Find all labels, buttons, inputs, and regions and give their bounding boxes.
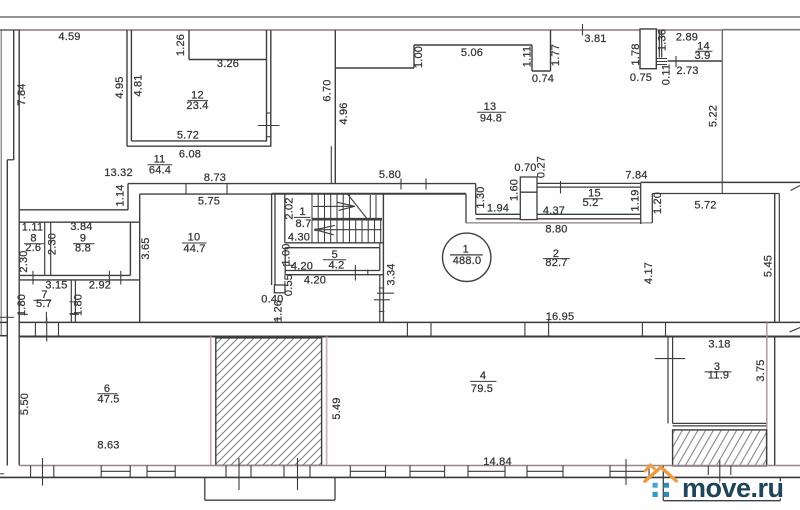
room12 right wall inner <box>266 30 268 141</box>
window midline <box>610 470 644 472</box>
door dash left <box>20 313 29 315</box>
room5 right wall <box>379 248 381 271</box>
svg-text:1.30: 1.30 <box>475 186 487 208</box>
left outer wall upper outer line <box>13 30 15 160</box>
logo window square TL <box>653 483 658 488</box>
tick on room15 top <box>560 181 562 194</box>
svg-text:1.26: 1.26 <box>175 34 187 56</box>
svg-text:2.02: 2.02 <box>284 197 296 219</box>
wall 8|9 line b <box>50 222 52 275</box>
svg-text:4.30: 4.30 <box>288 232 310 244</box>
band divider <box>225 466 227 478</box>
room9 right wall <box>129 222 131 275</box>
svg-text:4.20: 4.20 <box>304 275 326 287</box>
room15 floor line a left <box>476 213 521 215</box>
window right jamb <box>504 466 506 478</box>
window left jamb <box>467 466 469 478</box>
svg-text:5.80: 5.80 <box>379 169 401 181</box>
svg-text:4.95: 4.95 <box>114 76 126 98</box>
svg-text:8.7: 8.7 <box>296 218 312 230</box>
band divider <box>283 466 285 478</box>
band divider <box>524 322 526 336</box>
stairwell east wall <box>382 194 384 323</box>
window right jamb <box>444 466 446 478</box>
svg-text:11.9: 11.9 <box>708 370 729 382</box>
wall 7.84 <box>641 181 800 183</box>
svg-text:5.45: 5.45 <box>763 255 775 277</box>
svg-text:4.20: 4.20 <box>291 260 313 272</box>
svg-text:4: 4 <box>480 370 486 382</box>
room12 niche horizontal <box>189 59 267 61</box>
room12 wall rung <box>266 112 271 114</box>
svg-text:10: 10 <box>188 232 201 244</box>
center porch left <box>204 477 206 500</box>
svg-text:1.11: 1.11 <box>22 222 43 234</box>
right outer wall lower <box>774 337 776 466</box>
svg-text:0.55: 0.55 <box>283 274 295 296</box>
window right jamb <box>129 466 131 478</box>
svg-text:5.72: 5.72 <box>177 130 199 142</box>
right porch bottom <box>663 500 780 502</box>
room 13 label <box>477 101 506 125</box>
svg-text:1.11: 1.11 <box>522 46 534 67</box>
room7 wall rung <box>70 313 78 315</box>
rooms 8-9 top wall <box>19 221 140 223</box>
window left jamb <box>349 466 351 478</box>
stairs bottom line <box>285 242 384 244</box>
wall 1.20 vertical <box>651 194 653 224</box>
wall 8.73 <box>128 183 476 185</box>
svg-text:6.70: 6.70 <box>322 79 334 101</box>
right wall line b <box>778 194 780 323</box>
tick on bottom wall <box>32 271 34 285</box>
svg-text:14.84: 14.84 <box>483 456 512 468</box>
door opening rect <box>640 29 656 69</box>
svg-text:3.9: 3.9 <box>695 50 711 62</box>
lower flight treads <box>312 219 381 243</box>
tick on bottom wall <box>108 271 110 285</box>
svg-text:3.26: 3.26 <box>217 58 239 70</box>
room5 top <box>285 247 380 249</box>
room5 bottom outer <box>285 274 383 276</box>
svg-text:1.60: 1.60 <box>509 179 521 201</box>
svg-text:5.2: 5.2 <box>583 197 599 209</box>
room13 left wall second line <box>330 146 332 183</box>
stairwell top wall <box>272 193 466 195</box>
room13 left wall <box>334 30 336 184</box>
band long tick <box>42 458 44 486</box>
door stub room7 <box>45 312 47 323</box>
svg-text:move.ru: move.ru <box>682 473 784 503</box>
tick on 8.73 wall <box>400 179 402 190</box>
svg-text:5.49: 5.49 <box>331 397 343 419</box>
svg-text:1.78: 1.78 <box>630 43 642 65</box>
svg-text:1.14: 1.14 <box>115 184 127 206</box>
east wall tick 2 <box>374 299 390 301</box>
svg-text:2.30: 2.30 <box>18 250 30 272</box>
tick on 8.73 wall <box>425 179 427 190</box>
svg-text:0.74: 0.74 <box>532 73 554 85</box>
svg-text:1.00: 1.00 <box>413 46 425 68</box>
svg-text:1.26: 1.26 <box>273 300 285 322</box>
band divider <box>406 322 408 336</box>
tick between walls <box>185 184 187 194</box>
logo window square BR <box>664 492 669 497</box>
svg-text:3.81: 3.81 <box>584 33 606 45</box>
niche 5.06 top <box>414 44 532 46</box>
room12 wall tick <box>258 125 280 127</box>
stairwell west wall line b <box>274 194 276 285</box>
door dash right <box>70 313 79 315</box>
window left jamb <box>526 466 528 478</box>
lower flight arrow shaft <box>315 229 381 231</box>
band long tick <box>625 459 627 485</box>
svg-text:0.70: 0.70 <box>514 162 536 174</box>
band divider <box>309 466 311 478</box>
right wall 5.22 <box>721 30 723 194</box>
tick on room5 bottom <box>354 265 356 281</box>
logo window square TR <box>664 483 669 488</box>
svg-text:3.18: 3.18 <box>708 339 730 351</box>
band divider <box>665 322 667 336</box>
room15 top wall line a <box>537 182 641 184</box>
svg-text:94.8: 94.8 <box>480 113 502 125</box>
bottom band bottom line <box>0 476 800 478</box>
room 3 label <box>705 361 732 382</box>
wall 8.80 bottom gray <box>466 222 652 224</box>
window midline <box>527 470 563 472</box>
stair east wall second line upper <box>379 243 381 248</box>
upper flight treads <box>312 194 376 219</box>
svg-text:23.4: 23.4 <box>186 100 208 112</box>
room 4 label <box>470 370 497 395</box>
niche 5.06 left vertical <box>413 45 415 68</box>
stairwell label 1 8.7 <box>294 206 311 230</box>
wall down 1.60 side <box>475 184 477 215</box>
hatch block 1 pink line right <box>326 337 328 466</box>
svg-text:7.84: 7.84 <box>16 83 28 105</box>
wall 4|3 line a <box>667 337 669 424</box>
room12 right wall outer <box>270 30 272 146</box>
corridor10 left wall 3.65 <box>139 194 141 322</box>
left bottom small tick <box>0 473 4 475</box>
svg-text:488.0: 488.0 <box>453 255 482 267</box>
svg-text:3.84: 3.84 <box>70 221 92 233</box>
svg-text:79.5: 79.5 <box>471 383 493 395</box>
svg-text:1.19: 1.19 <box>630 189 642 211</box>
wall 1.77 <box>550 30 552 71</box>
cross tick on wall 4|3 <box>655 358 685 360</box>
svg-text:5.72: 5.72 <box>694 200 716 212</box>
band door dash right <box>790 328 800 333</box>
room5 left wall <box>284 248 286 275</box>
hatch block 1 <box>216 338 322 466</box>
svg-text:4.17: 4.17 <box>643 262 655 284</box>
tick on bottom wall <box>120 271 122 285</box>
band divider <box>53 466 55 478</box>
room12 bottom inner <box>131 140 267 142</box>
hatch block 2 <box>673 430 767 466</box>
band divider <box>707 466 709 476</box>
room15 floor line b <box>476 218 641 220</box>
room15 floor line a right <box>537 213 641 215</box>
wall 1.36 line a <box>658 30 660 58</box>
niche 0.70 rect <box>520 177 537 220</box>
band divider <box>250 466 252 478</box>
band stub left top <box>0 321 7 323</box>
svg-text:47.5: 47.5 <box>97 394 119 406</box>
dim leader tick 4.20 <box>283 264 294 266</box>
lower flight arrow head <box>315 225 335 234</box>
band long tick <box>719 460 721 485</box>
svg-text:1.77: 1.77 <box>550 44 562 66</box>
logo house roof main <box>645 467 677 481</box>
svg-text:5.7: 5.7 <box>36 298 52 310</box>
center porch right <box>334 477 336 500</box>
svg-text:1.36: 1.36 <box>657 29 669 51</box>
hatch block 1 pink line left <box>210 337 212 466</box>
svg-text:5.50: 5.50 <box>19 393 31 415</box>
tick on 2.73 wall <box>675 56 677 67</box>
stairwell west wall line a <box>271 194 273 285</box>
landing left wall <box>284 194 286 243</box>
room 10 label <box>182 232 207 256</box>
svg-text:1.94: 1.94 <box>487 203 509 215</box>
svg-text:13: 13 <box>484 101 497 113</box>
svg-text:3.75: 3.75 <box>755 359 767 381</box>
band bottom line <box>19 336 800 338</box>
svg-text:4.37: 4.37 <box>543 205 565 217</box>
room12 left wall outer <box>126 30 128 146</box>
tick on top wall <box>582 24 584 36</box>
svg-text:16.95: 16.95 <box>546 311 575 323</box>
tick on room5 bottom short <box>367 270 369 276</box>
door tick near band <box>276 317 278 322</box>
window right jamb <box>385 466 387 478</box>
svg-text:8.80: 8.80 <box>545 224 567 236</box>
band long tick <box>238 458 240 490</box>
wall down 1.30 <box>465 194 467 223</box>
room7 wall rung <box>70 301 78 303</box>
band divider <box>430 322 432 336</box>
stairs middle thick line <box>312 218 382 221</box>
room12 left wall inner <box>130 30 132 141</box>
svg-text:3.15: 3.15 <box>45 280 67 292</box>
svg-text:4.2: 4.2 <box>329 260 345 272</box>
hinge dash 3 <box>657 64 668 66</box>
svg-text:82.7: 82.7 <box>545 257 567 269</box>
left edge line <box>0 30 2 335</box>
niche bottom horizontal <box>532 70 551 72</box>
window left jamb <box>100 466 102 478</box>
svg-text:2.30: 2.30 <box>47 233 59 255</box>
svg-text:6.08: 6.08 <box>179 149 201 161</box>
hinge dash 2 <box>657 61 668 63</box>
band divider <box>730 466 732 476</box>
bottom band top line <box>19 465 800 467</box>
room13 wall 3.19 <box>335 67 414 69</box>
logo house roof small peak <box>645 465 654 471</box>
east wall rung <box>379 310 385 312</box>
svg-text:5.22: 5.22 <box>708 105 720 127</box>
wall 2.73 <box>668 60 723 62</box>
east wall second line below <box>379 275 381 323</box>
left wall jog <box>7 159 13 161</box>
room 11 label <box>148 154 173 177</box>
band top line <box>19 321 800 323</box>
room5 bottom inner <box>285 270 380 272</box>
step vertical 1.14 <box>127 184 129 210</box>
room 12 label <box>186 90 208 113</box>
svg-text:2.89: 2.89 <box>676 32 698 44</box>
upper flight arrow head <box>337 202 355 210</box>
svg-text:3.34: 3.34 <box>386 263 398 285</box>
window midline <box>101 470 130 472</box>
band long tick <box>297 458 299 490</box>
wall 5.75 corridor top <box>140 193 466 195</box>
top exterior wall left (black) <box>0 29 20 31</box>
top border line <box>0 16 800 18</box>
svg-text:0.75: 0.75 <box>630 72 652 84</box>
svg-text:0.27: 0.27 <box>536 156 548 178</box>
svg-text:8.73: 8.73 <box>204 172 226 184</box>
svg-text:1: 1 <box>299 206 305 218</box>
svg-text:1.20: 1.20 <box>652 192 664 214</box>
svg-text:0.11: 0.11 <box>661 64 673 85</box>
band divider <box>34 322 36 336</box>
right porch left <box>662 466 664 501</box>
lower arrow dot <box>314 228 317 231</box>
area circle 1 488.0 <box>443 233 491 281</box>
svg-text:8.8: 8.8 <box>75 243 91 255</box>
svg-text:4.59: 4.59 <box>58 31 80 43</box>
band divider <box>609 466 611 478</box>
wall 8|9 line a <box>44 222 46 275</box>
stairs break diagonal <box>348 194 367 218</box>
room12 niche vertical <box>188 30 190 60</box>
hinge dash 1 <box>657 58 668 60</box>
svg-text:1.80: 1.80 <box>73 294 85 316</box>
tick between walls <box>226 184 228 194</box>
room 2 label <box>543 248 570 269</box>
room12 bottom outer <box>127 145 271 147</box>
band stub left bottom <box>0 335 7 337</box>
wall 4|3 line b <box>672 337 674 424</box>
room 15 label <box>583 188 603 209</box>
svg-text:4.96: 4.96 <box>338 102 350 124</box>
east wall rung <box>379 287 385 289</box>
window midline <box>410 470 445 472</box>
svg-text:64.4: 64.4 <box>149 165 171 177</box>
band divider <box>30 466 32 478</box>
room12 wall rung <box>266 136 271 138</box>
door dash at right edge <box>791 186 800 191</box>
niche divider <box>520 191 537 193</box>
svg-text:5.06: 5.06 <box>461 47 483 59</box>
svg-text:44.7: 44.7 <box>183 243 205 255</box>
room15 right wall <box>640 182 642 224</box>
room 6 label <box>97 383 119 406</box>
svg-text:1.80: 1.80 <box>16 294 28 316</box>
room 7 label <box>34 289 52 310</box>
svg-text:8.63: 8.63 <box>97 440 119 452</box>
top exterior wall (pink) <box>19 29 722 31</box>
top exterior wall right (gray) <box>722 29 800 31</box>
band long tick <box>46 318 48 342</box>
room3 bottom wall line b <box>673 425 767 427</box>
room 5 label <box>323 249 346 272</box>
svg-text:7.84: 7.84 <box>625 170 647 182</box>
wall 1.36 line b <box>661 30 663 58</box>
svg-text:5.75: 5.75 <box>198 196 220 208</box>
logo window square BL <box>653 492 658 497</box>
band divider <box>641 322 643 336</box>
svg-text:3.65: 3.65 <box>140 237 152 259</box>
hatch block 2 pink line right <box>766 322 768 466</box>
svg-text:2.92: 2.92 <box>89 280 111 292</box>
room7 right wall line a <box>70 280 72 323</box>
center porch bottom <box>205 499 335 501</box>
svg-text:1.00: 1.00 <box>281 243 293 265</box>
svg-text:1: 1 <box>463 243 469 255</box>
niche right vertical <box>531 45 533 71</box>
room 8 label <box>24 233 44 254</box>
east wall tick <box>377 292 394 294</box>
window right jamb <box>174 466 176 478</box>
window left jamb <box>146 466 148 478</box>
right porch right <box>779 477 781 500</box>
wall 5.72 <box>652 193 779 195</box>
west wall footing box <box>274 285 285 293</box>
left outer wall inner line <box>18 30 20 465</box>
room 9 label <box>73 233 95 255</box>
rooms 8-9 bottom inner <box>19 274 130 276</box>
svg-text:2.73: 2.73 <box>676 65 698 77</box>
left small tick <box>0 316 14 318</box>
left outer wall lower outer line <box>6 160 8 466</box>
window midline <box>468 470 505 472</box>
room3 bottom wall line a <box>673 422 767 424</box>
right wall line a <box>774 194 776 323</box>
rooms 8-9 bottom outer <box>19 279 140 281</box>
band divider <box>648 466 650 478</box>
svg-text:13.32: 13.32 <box>104 167 133 179</box>
upper flight arrow shaft <box>313 205 354 207</box>
window midline <box>147 470 175 472</box>
svg-text:4.81: 4.81 <box>133 74 145 96</box>
room15 top wall line b <box>537 186 641 188</box>
room 14 label <box>695 41 713 63</box>
band divider <box>58 322 60 336</box>
window left jamb <box>409 466 411 478</box>
step wall to left <box>19 209 128 211</box>
room7 right wall line b <box>74 280 76 323</box>
band divider tall <box>548 320 550 337</box>
window midline <box>350 470 385 472</box>
window right jamb <box>562 466 564 478</box>
